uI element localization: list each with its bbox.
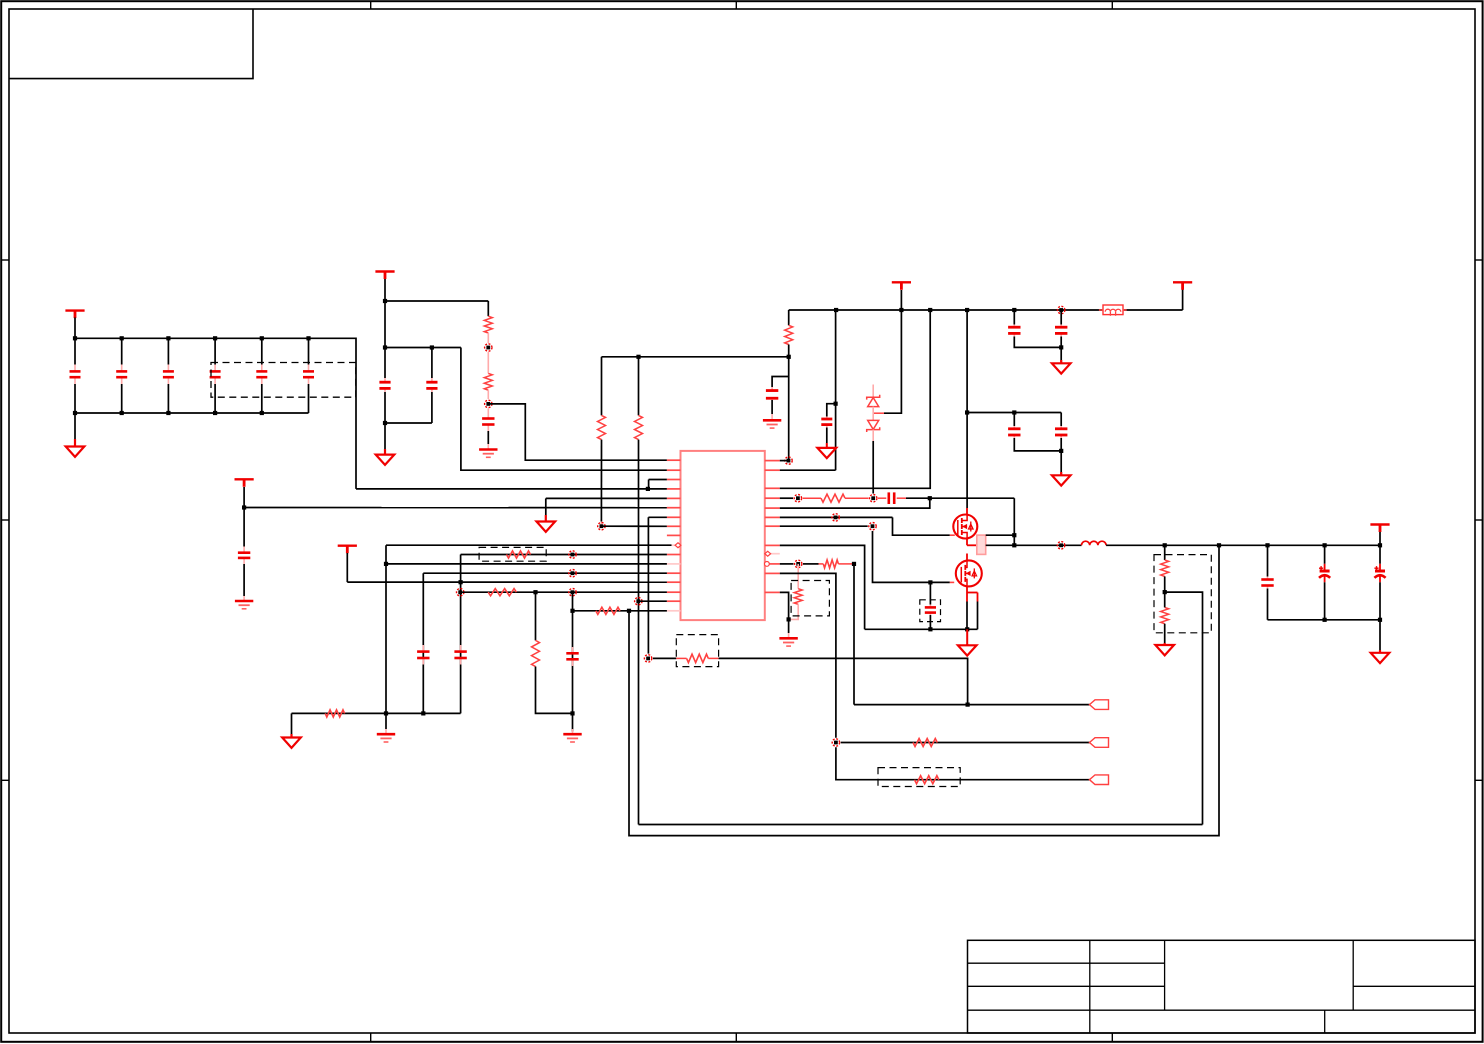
wire Q1 drain lead [966,508,968,514]
wire bottom-left gnd rail [292,712,461,714]
junction tie D [569,570,576,577]
capacitor C19 (boot) [878,497,886,499]
wire PGND rail [865,628,978,630]
capacitor C18 [1060,413,1062,427]
capacitor C24 [826,417,828,420]
IC U1 left pins [667,459,681,461]
junction IC pin r1 [785,457,792,464]
power flag VDD2 [892,281,911,283]
wire IC pin17 line [573,610,667,612]
resistor R17 (output divider top, boxed) [1164,545,1166,560]
power flag VOUT [1370,523,1389,525]
capacitor C2 (input bank) [121,338,123,364]
ground GND11 (earth) [788,619,790,633]
junction boot [794,495,801,502]
dashed box R14 [791,581,829,616]
dashed box (input bank group) [211,363,356,398]
wire VOUT sense (long) [629,545,1219,835]
wire VIN2 node [383,299,387,303]
junction SW [1057,542,1064,549]
wire terminal2 line [841,742,1090,744]
power flag VCC [235,478,254,480]
junction line F start [457,589,464,596]
junction R4 / IC pin16 [635,598,642,605]
wire input bank bottom rail [75,412,309,414]
junction r11/terminal2 [832,739,839,746]
wire boot stub to IC pin r5 [780,498,930,508]
capacitor C5 (input bank) [261,338,263,364]
wire terminal1 line [854,704,1090,706]
wire IC pin r4 (boot) [780,497,793,499]
resistor R16 (boxed) [915,776,939,784]
junction ILIM [644,655,651,662]
capacitor C15 [1013,325,1015,328]
junction r6 tie [832,514,839,521]
wire IC pin r8 to PGND [780,545,865,629]
wire line D vertical [422,573,424,713]
wire R4 to FB sense (long) [638,440,640,825]
wire VOUT rail [1106,544,1380,546]
dashed box C20 [920,600,941,622]
wire bypass branch 2 [827,404,836,417]
junction r10 [795,560,802,567]
wire VIN top rail [75,338,356,489]
capacitor C1 (input bank) [74,338,76,364]
capacitor C12 [422,645,424,652]
terminal X3 [1090,775,1109,785]
wire cap pair rail 1 [1013,310,1015,325]
ground GND1 (input bank) [74,413,76,439]
resistor R8 [596,607,620,614]
wire IC pin8 [601,525,667,527]
wire line A (pin10) [386,544,672,546]
resistor R11 (boot) [821,494,845,502]
ground GND6 (earth) [771,414,773,420]
ground GND3 (earth) [487,444,489,450]
capacitor C7 [384,348,386,379]
IC U1 [681,451,765,620]
wire IC pin r11 vertical [780,573,836,737]
highlight SW net [977,535,986,554]
wire IC pin r12 to ground [780,592,789,619]
junction (divider tap) [485,400,492,407]
dashed box R16 [878,768,960,787]
wire line B vertical [460,555,462,714]
junction tie F [569,589,576,596]
wire line F (pin15) [460,591,667,593]
wire SW jog [986,534,1015,536]
wire VDD rail [789,309,1102,311]
junction tie B [569,551,576,558]
capacitor C16 [1060,310,1062,325]
wire input rail to IC pins 3-4 [356,488,667,490]
ground GND2 [384,423,386,452]
wire IC pin r6 to upper gate [780,516,893,518]
resistor R18 (output divider bottom) [1161,607,1169,623]
junction R3 bottom / IC pin8 [598,523,605,530]
capacitor C22 (output, polarized) [1324,545,1326,564]
wire Q2 drain lead [966,554,968,561]
junction R8 / VOUT sense [627,609,631,613]
dashed box output divider [1154,555,1211,633]
junction rail/C bypass [1058,306,1065,313]
wire output gnd rail [1268,619,1381,621]
power flag VDD [1182,284,1184,311]
terminal X2 [1090,738,1109,748]
bubble IC pin r10 [765,562,770,567]
resistor R12 (boxed) [676,657,686,659]
wire C7 rail to IC pin2 [461,348,667,471]
resistor R6 (line F) [488,589,516,596]
wire terminal3 line [836,747,1090,779]
capacitor C20 (snubber, boxed) [929,582,931,604]
wire SW to inductor [986,544,1082,546]
ground GND9 [826,443,828,447]
wire GND to IC pin5 [546,497,667,499]
wire line C (pin12) [386,563,667,565]
IC U1 right pins [765,460,780,462]
wire zener bottom to RC node [872,441,874,494]
resistor R13 [819,563,824,565]
ground GND8 [1060,451,1062,474]
wire r10 to terminal rail [853,564,855,705]
ground GND15 [1164,643,1166,645]
capacitor C10 (VCC bypass) [243,508,245,547]
capacitor C14 [771,387,773,391]
capacitor C23 (output, polarized) [1379,545,1381,564]
resistor R9 [325,710,344,717]
capacitor C13 [572,647,574,653]
wire cap pair rail 2 [967,412,1061,414]
dashed box R5 [479,547,546,561]
ground GND12 (earth) [385,713,387,729]
wire IC pin r7 to lower gate [780,525,868,527]
junction boot/zener [870,495,877,502]
power flag VIN2 [375,270,394,272]
zener pair D1/D2 [872,385,874,398]
resistor R3 [601,357,603,416]
wire top bias rail [602,356,789,358]
ground GND10 [966,629,968,644]
wire IC pin16 [638,600,667,602]
wire FB bottom run [639,824,1203,826]
no-connect diamond IC pin r9 [765,551,771,556]
wire A/C vertical [385,545,387,713]
resistor R2 (divider bottom) [487,352,489,373]
ground GND4 (earth) [243,596,245,601]
wire rail to upper FET drain [966,310,968,508]
capacitor C21 (output) [1267,545,1269,576]
wire cap C7/C8 bottom [383,421,387,425]
wire Q1 source lead [966,539,968,546]
wire line F cap branch vertical [572,592,574,731]
capacitor C17 [1013,413,1015,427]
ferrite bead FB1 [1099,309,1103,311]
wire ILIM to sense rail [719,658,968,704]
resistor R7 vertical [535,592,537,640]
wire line D (pin13) [423,572,667,574]
wire line B (pin11) [461,554,667,556]
dashed box R12 [676,635,718,667]
wire IC pin7 net (ILIM) [648,516,667,518]
wire Q2 source leads [966,587,968,602]
resistor R10 (rail drop) [788,310,790,325]
wire R10 bottom to IC pin r1 [788,345,790,461]
junction (divider mid) [485,344,492,351]
wire boot to SW [906,497,1014,499]
resistor R15 [913,739,937,747]
capacitor C8 [431,348,433,379]
wire divider tap to IC pin1 [488,404,667,460]
wire rail to IC pin r3 [780,310,930,488]
terminal X1 [1090,700,1109,710]
wire rail tie to r2 [835,310,837,470]
power flag VIN (input bank) [65,309,84,311]
capacitor C11 [460,645,462,652]
ground GND5 [545,498,547,515]
wire zener feed [884,310,901,413]
no-connect diamond IC pin10 [675,543,681,548]
power flag VCC2 [338,545,357,547]
ground GND7 [1060,347,1062,362]
ground GND13 (earth) [572,729,574,734]
capacitor C6 (input bank) [308,338,310,364]
resistor R1 (divider top) [487,301,489,316]
wire IC pin r10 net [780,563,794,565]
wire bypass stub [772,377,789,388]
transistor Q2 (low side) [956,560,982,586]
wire VCC rail to IC pin6 [242,505,246,509]
capacitor C4 (input bank) [214,338,216,364]
wire divider mid to FB [1165,592,1203,824]
ground GND16 [1379,620,1381,652]
inductor L1 [1082,541,1107,545]
resistor R14 (boxed, r10 pulldown) [797,564,799,589]
ground GND14 [291,713,293,736]
transistor Q1 (high side) [953,515,977,539]
capacitor C3 (input bank) [167,338,169,364]
wire IC pin r2 [780,469,836,471]
resistor R5 (line B, boxed) [507,551,531,558]
junction r7 [869,523,876,530]
capacitor C9 [487,409,489,419]
wire line E (pin14) [347,581,667,583]
resistor R4 [638,357,640,416]
